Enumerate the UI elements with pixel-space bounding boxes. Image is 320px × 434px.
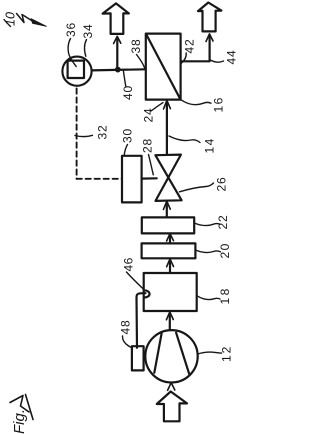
wire compressor to unit 18 xyxy=(166,312,173,330)
label 48 xyxy=(119,320,133,348)
label 32 xyxy=(75,125,110,140)
svg-text:40: 40 xyxy=(121,85,135,100)
wire box18 to box20 xyxy=(167,259,174,273)
wire separator to right vent xyxy=(181,34,213,62)
svg-text:32: 32 xyxy=(96,125,110,140)
svg-text:26: 26 xyxy=(215,177,229,192)
svg-text:36: 36 xyxy=(64,22,78,37)
label 46 xyxy=(122,257,144,289)
outlet arrow left (hollow) xyxy=(103,3,129,34)
label 44 xyxy=(210,50,238,65)
svg-text:30: 30 xyxy=(121,128,135,143)
label 14 xyxy=(169,136,217,154)
wire sensor to separator xyxy=(92,69,146,70)
unit 20 xyxy=(142,243,196,258)
label 20 xyxy=(196,242,233,258)
intake arrowhead xyxy=(168,383,175,391)
svg-text:10: 10 xyxy=(4,12,18,26)
separator unit 16 xyxy=(146,34,181,100)
label 16 xyxy=(181,96,226,112)
svg-text:16: 16 xyxy=(212,96,226,112)
label 36 xyxy=(64,22,78,66)
intake arrow (hollow) xyxy=(157,392,187,422)
svg-text:48: 48 xyxy=(119,320,133,335)
svg-text:18: 18 xyxy=(218,286,232,304)
svg-text:20: 20 xyxy=(218,242,232,258)
svg-text:46: 46 xyxy=(122,257,136,271)
label 26 xyxy=(180,177,229,192)
dashed signal line vertical 32 xyxy=(76,89,78,179)
label 24 xyxy=(142,103,164,123)
separator membrane diagonal xyxy=(146,34,180,99)
controller 30 xyxy=(122,156,142,203)
svg-text:22: 22 xyxy=(216,215,230,230)
compressor vane right xyxy=(176,333,189,374)
sensor box 48 xyxy=(132,346,144,370)
unit 22 xyxy=(142,217,194,233)
label 30 xyxy=(121,128,135,156)
valve 26 xyxy=(155,155,181,201)
label 10 xyxy=(4,12,18,26)
label 22 xyxy=(194,215,230,230)
label 12 xyxy=(198,345,234,362)
compressor 12 circle xyxy=(145,330,197,382)
svg-text:Fig.: Fig. xyxy=(11,409,28,434)
wire 48 to port 46 xyxy=(137,293,146,348)
dashed signal line horizontal 32 xyxy=(77,178,122,180)
label 38 xyxy=(129,39,145,69)
label 42 xyxy=(181,39,196,64)
label 28 xyxy=(141,138,155,175)
caption Fig. 1 xyxy=(10,395,33,434)
wire box22 to valve xyxy=(163,201,170,217)
leader arrow for 10 xyxy=(17,14,47,27)
label 34 xyxy=(81,24,95,57)
wire box20 to box22 xyxy=(167,234,174,243)
unit 18 xyxy=(144,273,197,311)
conduit 24 valve to separator xyxy=(164,100,171,154)
svg-text:42: 42 xyxy=(183,39,197,54)
svg-text:14: 14 xyxy=(203,137,217,153)
compressor vane left xyxy=(154,333,161,372)
label 18 xyxy=(197,286,232,304)
outlet arrow right (hollow) xyxy=(198,3,221,32)
svg-text:34: 34 xyxy=(81,24,95,39)
svg-text:38: 38 xyxy=(129,39,143,54)
sensor circle 34 xyxy=(62,57,91,86)
wire controller to valve xyxy=(142,177,157,180)
svg-text:28: 28 xyxy=(141,138,155,153)
junction node xyxy=(115,67,120,72)
label 40 xyxy=(121,71,135,100)
sensor square 36 xyxy=(68,61,84,78)
svg-text:44: 44 xyxy=(225,50,239,65)
inlet port 46 on unit 18 xyxy=(144,290,149,297)
wire riser left vent xyxy=(114,36,121,69)
